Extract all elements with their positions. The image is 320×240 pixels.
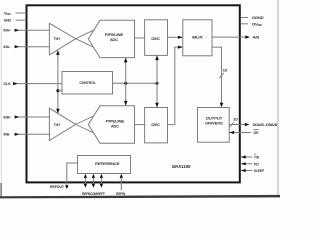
clock wire to DEC A and B <box>155 55 159 107</box>
T/H amplifier A <box>49 23 75 55</box>
page left edge line <box>0 25 2 197</box>
svg-text:T/B: T/B <box>254 156 259 160</box>
wire MUX to A/B output <box>212 35 260 40</box>
DEC A <box>145 20 168 56</box>
pin GND <box>4 19 27 23</box>
wire DEC A to MUX <box>168 36 183 39</box>
REFERENCE <box>78 156 131 174</box>
CONTROL <box>62 72 113 95</box>
device label MAX1185 <box>172 164 191 169</box>
OUTPUT DRIVERS <box>198 108 230 143</box>
svg-text:INB-: INB- <box>4 133 11 137</box>
pipeline ADC A <box>88 20 134 57</box>
T/H amplifier B <box>49 108 75 140</box>
pin OE (input to output drivers) <box>229 130 258 136</box>
pin INB+ <box>4 115 50 119</box>
svg-text:CONTROL: CONTROL <box>80 80 97 85</box>
wire MUX to output drivers (10-bit bus) <box>212 47 228 107</box>
wire pipeline A to DEC A <box>135 37 145 39</box>
wire pipeline B to DEC B <box>135 124 145 126</box>
svg-text:INA-: INA- <box>4 45 11 49</box>
page bottom edge band <box>0 195 280 199</box>
pin VDD <box>4 11 27 16</box>
svg-text:MAX1185: MAX1185 <box>172 164 191 169</box>
chip outline MAX1185 <box>27 5 240 182</box>
MUX <box>183 20 212 56</box>
pin REFIN <box>116 174 125 196</box>
wire output drivers to data bus out <box>229 116 277 127</box>
pin OGND <box>241 15 264 20</box>
svg-text:OE: OE <box>254 130 259 135</box>
svg-text:T/H: T/H <box>54 37 60 41</box>
junction dot control/T-H clock <box>56 89 62 92</box>
svg-text:COM: COM <box>90 192 97 196</box>
pin REFN (bidirectional) <box>82 174 90 196</box>
svg-text:DEC: DEC <box>151 36 160 41</box>
wire DEC B to MUX <box>168 46 183 125</box>
pin PD <box>241 162 259 166</box>
svg-text:DRIVERS: DRIVERS <box>205 120 223 125</box>
wire T/H B to pipeline B (diff pair) <box>76 116 94 133</box>
pin INB- <box>4 133 50 137</box>
svg-text:REFP: REFP <box>97 192 105 196</box>
pin INA+ <box>4 29 50 33</box>
svg-text:MUX: MUX <box>192 35 203 40</box>
pipeline ADC B <box>88 106 134 143</box>
wire REFOUT from reference <box>50 163 78 189</box>
pin COM (bidirectional) <box>90 174 97 196</box>
svg-text:ADC: ADC <box>110 37 118 42</box>
pin CLK <box>4 82 63 86</box>
svg-text:REFOUT: REFOUT <box>50 184 65 189</box>
svg-text:ADC: ADC <box>111 124 119 129</box>
svg-text:INB+: INB+ <box>4 115 12 119</box>
svg-text:GND: GND <box>4 19 11 23</box>
svg-text:DEC: DEC <box>151 122 160 127</box>
svg-text:CLK: CLK <box>4 82 12 86</box>
svg-text:REFERENCE: REFERENCE <box>95 161 120 166</box>
svg-text:INA+: INA+ <box>4 29 12 33</box>
pin OVDD <box>241 21 262 27</box>
clock wire to pipeline A and B <box>124 58 128 106</box>
junction dot DEC clock <box>155 82 158 85</box>
svg-text:SLEEP: SLEEP <box>254 169 264 173</box>
DEC B <box>145 108 168 143</box>
page right edge line <box>277 0 279 196</box>
pin REFP (bidirectional) <box>97 174 105 196</box>
svg-text:A/B: A/B <box>253 35 260 40</box>
svg-text:REFN: REFN <box>82 192 90 196</box>
svg-text:OVDD: OVDD <box>252 21 262 27</box>
pin INA- <box>4 45 50 49</box>
svg-text:VDD: VDD <box>4 11 11 16</box>
svg-text:10: 10 <box>223 68 228 73</box>
svg-text:10: 10 <box>233 116 238 121</box>
svg-text:REFIN: REFIN <box>116 192 125 196</box>
svg-text:T/H: T/H <box>54 123 60 127</box>
svg-text:PD: PD <box>254 162 259 166</box>
svg-text:OGND: OGND <box>252 15 264 20</box>
clock wire control to T/H A and T/H B <box>56 50 60 113</box>
junction dot pipeline clock <box>124 82 127 85</box>
pin SLEEP <box>241 169 264 173</box>
svg-text:D0A/B–D9A/B: D0A/B–D9A/B <box>253 122 278 127</box>
clock wire control to right <box>113 82 158 84</box>
wire T/H A to pipeline A (diff pair) <box>76 30 94 47</box>
pin T/B <box>241 154 259 159</box>
